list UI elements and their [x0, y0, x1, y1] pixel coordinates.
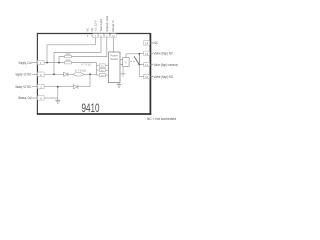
svg-text:NC = not connected: NC = not connected — [147, 117, 176, 121]
wire pin 3 row — [44, 86, 90, 88]
ground G3 below coil — [121, 67, 126, 77]
wire block to relay coil top — [120, 59, 123, 61]
svg-text:Valve (flap) NO: Valve (flap) NO — [154, 75, 174, 79]
diode D2 on pin 3 row — [74, 85, 78, 89]
contact stub pin11 — [139, 76, 143, 78]
pin 11 right Valve NO — [144, 74, 174, 79]
svg-text:Valve (flap) NC: Valve (flap) NC — [154, 52, 174, 56]
svg-text:Valve (flap) common: Valve (flap) common — [154, 63, 179, 67]
pin 3 left: Backup + — [16, 84, 45, 89]
wire block to relay coil bottom — [120, 63, 123, 65]
wire pin 2 row — [44, 73, 96, 75]
pin 2 left: Supply + — [16, 72, 45, 77]
capacitor K1 on net C — [65, 53, 72, 58]
wire pin1 row — [44, 62, 96, 64]
top pin 7: +3 V label, box, wire A — [93, 20, 98, 37]
pin 4 left: Backup Coil — [19, 96, 45, 101]
input block stack box S3 — [99, 73, 108, 77]
svg-text:11: 11 — [145, 75, 148, 79]
svg-text:Supply, Coil: Supply, Coil — [19, 61, 32, 65]
capacitor K2 on pin1 row — [65, 59, 72, 64]
svg-text:NC: NC — [86, 28, 90, 32]
input block stack box S2 — [99, 68, 108, 72]
resistor R1 oval on pin 2 row — [74, 69, 87, 76]
wire net A: top pin 7 down, left, down to pin 1 — [47, 38, 95, 63]
svg-text:13: 13 — [145, 52, 149, 56]
IC outline box 9410 — [37, 33, 151, 115]
riser pin4 to pin3 row — [57, 87, 59, 98]
wire: top pin 10 down to block top — [113, 38, 115, 52]
junction dot net B on pin2 row — [53, 73, 55, 75]
svg-text:14: 14 — [145, 42, 149, 46]
contact bar NC-common — [138, 54, 140, 65]
wire pin 4 row — [44, 97, 58, 99]
svg-text:NC: NC — [154, 41, 159, 45]
svg-text:Reset in: Reset in — [111, 20, 115, 31]
mechanical link dashes — [130, 61, 135, 63]
svg-text:Switch: Switch — [110, 57, 118, 61]
wire net B: top pin 8 down, left, down to pin 2 — [54, 38, 101, 75]
top pin 9 — [104, 16, 109, 38]
junction dots net A/C on pin1 row — [46, 62, 48, 64]
pin 14 right NC — [144, 41, 159, 46]
svg-text:Backup, Coil: Backup, Coil — [19, 96, 32, 100]
relay contact arm — [134, 56, 139, 64]
top pin 10 — [111, 20, 116, 38]
svg-text:Backup +12 V/DC: Backup +12 V/DC — [16, 85, 32, 89]
ground G1 below pin 4 — [55, 98, 60, 103]
contact stub pin13 — [139, 52, 143, 54]
svg-text:Supply +12 V/DC: Supply +12 V/DC — [16, 73, 32, 77]
svg-text:9410: 9410 — [82, 101, 100, 115]
top pin 5 NC — [86, 28, 90, 38]
pin 12 right Valve common — [144, 62, 179, 67]
control block U1 — [109, 52, 121, 83]
svg-text:4,7-5 kΩ: 4,7-5 kΩ — [75, 69, 87, 72]
svg-text:12: 12 — [145, 63, 149, 67]
wire common down to NO row — [138, 65, 140, 77]
wire coil to NC contact — [126, 54, 139, 58]
svg-text:4,7-5 kΩ: 4,7-5 kΩ — [81, 64, 92, 67]
top pin 8 — [99, 19, 104, 38]
contact stub pin12 — [139, 64, 143, 66]
riser from pin3 row up to pin2 row — [89, 74, 91, 86]
ground G2 below block — [117, 83, 121, 88]
svg-text:Power: Power — [110, 54, 118, 58]
relay coil K1 — [123, 58, 129, 67]
top pin 6 NC — [90, 28, 94, 38]
svg-text:Input set: Input set — [105, 16, 109, 32]
pin 1 left: Supply Coil — [19, 60, 45, 65]
wire net C: top pin 9 down, left, down to pin1 row — [59, 38, 107, 63]
svg-text:+3...12 V: +3...12 V — [94, 20, 98, 31]
pin 13 right Valve NC — [144, 51, 174, 56]
svg-text:Test input: Test input — [99, 19, 103, 32]
input block stack box S1 — [99, 64, 108, 68]
diode D1 on pin 2 row — [64, 72, 68, 76]
